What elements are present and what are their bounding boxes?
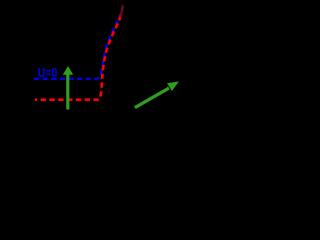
curve shifted (red dashed characteristic) (35, 15, 121, 100)
curve U=0 (blue dashed characteristic) (34, 15, 120, 79)
arrow vertical green (photocurrent shift) (63, 66, 73, 110)
faded blue dash near curve top (121, 8, 124, 11)
faded curve top (120, 5, 123, 17)
svg-text:U=0: U=0 (38, 66, 58, 80)
arrow diagonal green (load line direction) (134, 82, 179, 110)
